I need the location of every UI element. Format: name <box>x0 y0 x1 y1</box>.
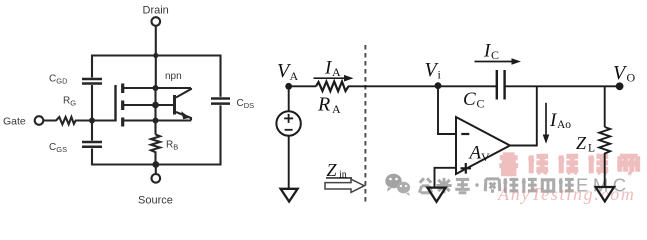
watermark wechat logo <box>385 174 410 196</box>
current IA arrow <box>314 77 347 79</box>
svg-text:R: R <box>317 94 330 116</box>
svg-text:Gate: Gate <box>3 116 26 128</box>
opamp minus sign <box>461 133 469 135</box>
wire body lead of mosfet <box>124 104 174 106</box>
op-amp AV <box>456 117 510 174</box>
wire top rail <box>92 54 221 56</box>
wire left vertical mid <box>91 85 93 141</box>
opamp plus sign <box>461 163 472 174</box>
source VA circle <box>276 111 300 135</box>
current IAo arrow <box>545 103 547 137</box>
wire drain lead <box>155 26 157 88</box>
wire VA to RA <box>289 85 316 87</box>
transistor Q npn emitter <box>176 112 191 121</box>
svg-text:A: A <box>332 65 341 79</box>
ground G3 <box>596 187 614 201</box>
impedance ZL zigzag <box>599 127 610 187</box>
source plus sign <box>284 114 293 130</box>
svg-text:Source: Source <box>138 195 173 207</box>
transistor Q npn collector <box>176 88 191 98</box>
wire source stem <box>155 165 157 174</box>
wire body to RB <box>154 88 156 135</box>
junction source rail <box>152 161 159 168</box>
resistor RG <box>44 117 116 124</box>
svg-text:A: A <box>290 69 299 83</box>
svg-text:C: C <box>463 89 476 110</box>
capacitor CDS <box>211 99 230 104</box>
svg-text:Z: Z <box>327 160 338 180</box>
wire VA source stem top <box>288 86 290 111</box>
node Vi dot <box>435 82 442 89</box>
wire opamp plus to ground <box>435 168 457 188</box>
wire bottom rail <box>92 163 221 165</box>
wire left vertical lower <box>91 149 93 166</box>
wire left vertical upper <box>91 55 93 78</box>
mosfet channel bar source <box>121 118 124 127</box>
junction gate node <box>89 118 95 124</box>
wire VO to ZL <box>604 86 606 127</box>
svg-text:Drain: Drain <box>143 5 169 17</box>
wire Vi down to opamp <box>438 86 456 134</box>
wire drain lead of mosfet <box>124 87 191 89</box>
svg-text:Ao: Ao <box>557 119 571 131</box>
ground G2 <box>427 188 445 202</box>
terminal source circle <box>152 174 161 183</box>
resistor RB <box>151 135 160 166</box>
terminal drain circle <box>152 17 161 26</box>
svg-text:C: C <box>491 48 499 62</box>
capacitor CGS <box>82 142 102 147</box>
junction source lead <box>153 118 159 124</box>
junction drain lead <box>153 85 159 91</box>
transistor emitter arrow <box>181 111 190 119</box>
line Zin dashed boundary <box>364 45 366 205</box>
svg-text:A: A <box>468 143 482 164</box>
node VO dot <box>616 82 624 90</box>
wire right vertical lower <box>219 105 221 165</box>
capacitor CC <box>497 70 505 100</box>
wire opamp output <box>510 86 537 145</box>
svg-text:npn: npn <box>165 71 182 82</box>
wire VA source stem bottom <box>288 136 290 189</box>
svg-text:L: L <box>588 143 595 155</box>
wire right vertical upper <box>219 55 221 97</box>
node VA dot <box>285 83 292 90</box>
mosfet channel bar body <box>121 101 124 111</box>
mosfet channel bar drain <box>121 84 124 94</box>
transistor Q npn base bar <box>173 95 176 115</box>
mosfet gate bar <box>114 85 116 122</box>
wire source lead of mosfet <box>124 119 191 121</box>
capacitor CGD <box>82 79 102 84</box>
watermark grey text <box>419 178 573 193</box>
junction body node <box>152 102 159 109</box>
svg-text:O: O <box>627 71 636 85</box>
ground G1 <box>281 189 298 202</box>
resistor RA <box>316 82 349 92</box>
watermark pink big 嘉峪检测网 <box>499 153 637 173</box>
svg-text:A: A <box>332 102 341 116</box>
svg-text:C: C <box>477 97 485 111</box>
block arrow Zin <box>325 179 364 192</box>
svg-text:Z: Z <box>576 133 587 153</box>
wire CC to VO <box>506 85 620 87</box>
junction drain rail <box>153 53 158 58</box>
svg-text:V: V <box>481 150 490 164</box>
terminal gate circle <box>35 116 44 125</box>
svg-text:in: in <box>339 170 347 181</box>
wire RA to CC <box>348 85 496 87</box>
current IC arrow <box>475 61 514 63</box>
